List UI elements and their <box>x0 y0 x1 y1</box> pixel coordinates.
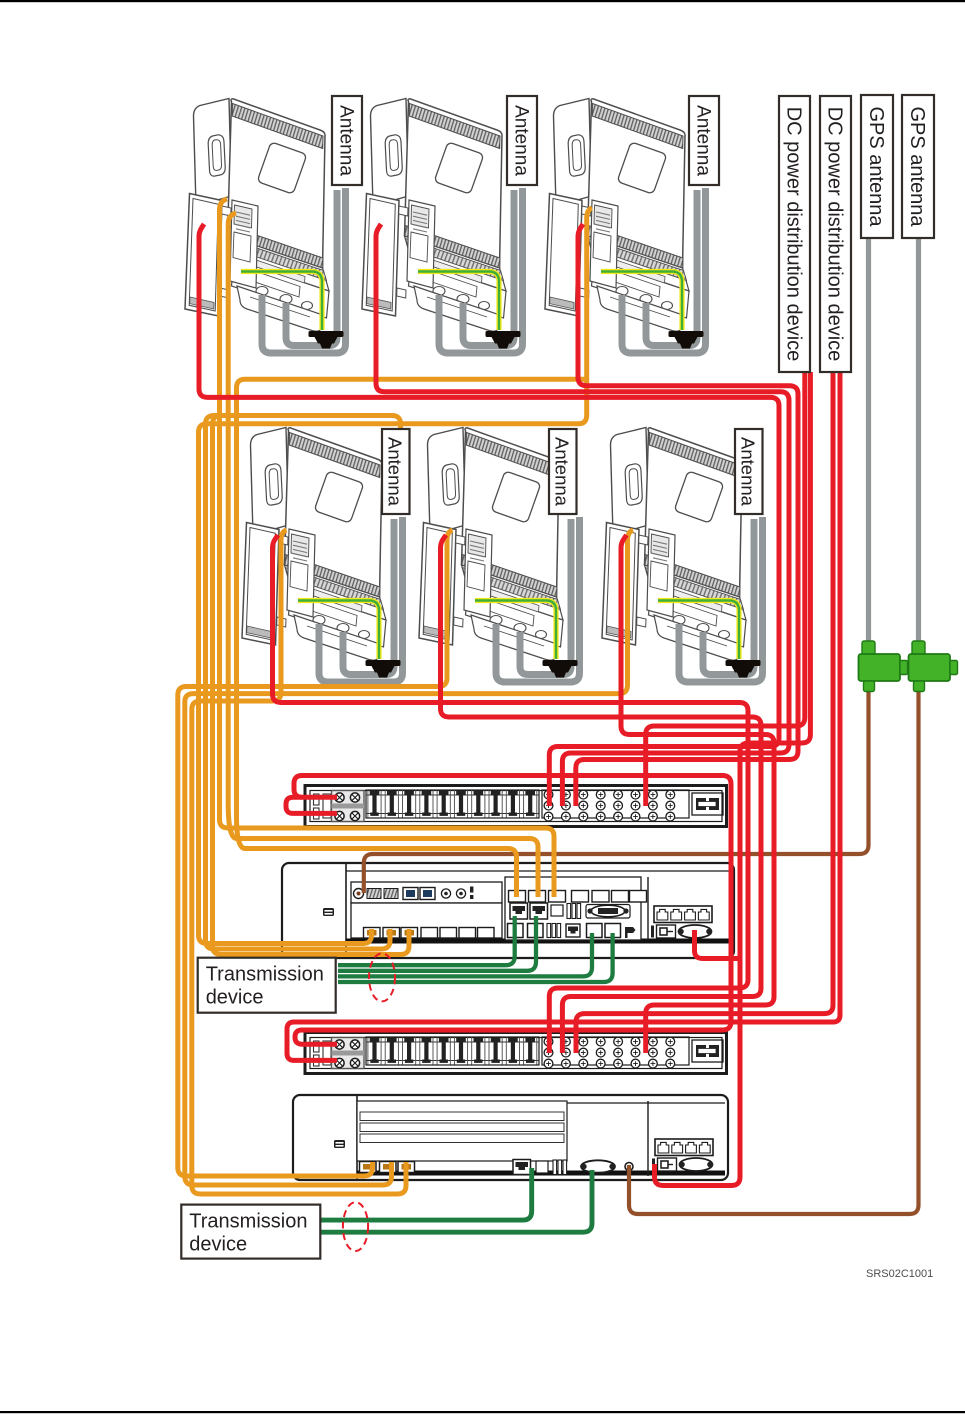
svg-text:Transmission: Transmission <box>189 1211 307 1233</box>
svg-text:Antenna: Antenna <box>511 105 532 176</box>
svg-text:SRS02C1001: SRS02C1001 <box>866 1268 933 1280</box>
svg-text:DC power distribution device: DC power distribution device <box>783 107 805 362</box>
svg-text:Antenna: Antenna <box>384 437 405 507</box>
svg-text:Antenna: Antenna <box>551 437 572 507</box>
svg-text:Antenna: Antenna <box>737 437 758 507</box>
svg-text:Antenna: Antenna <box>336 105 357 176</box>
svg-text:device: device <box>206 987 264 1009</box>
svg-text:GPS antenna: GPS antenna <box>906 106 928 227</box>
svg-text:Transmission: Transmission <box>206 964 324 986</box>
svg-text:GPS antenna: GPS antenna <box>865 106 887 227</box>
svg-text:device: device <box>189 1234 247 1256</box>
svg-text:DC power distribution device: DC power distribution device <box>824 107 846 362</box>
svg-text:Antenna: Antenna <box>693 105 714 176</box>
